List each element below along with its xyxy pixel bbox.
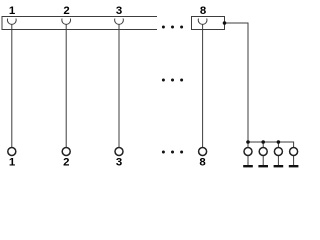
svg-text:1: 1 (9, 156, 16, 168)
svg-text:3: 3 (116, 156, 122, 168)
svg-text:3: 3 (116, 5, 122, 17)
svg-text:2: 2 (63, 156, 69, 168)
svg-text:1: 1 (9, 5, 16, 17)
svg-text:8: 8 (200, 5, 206, 17)
svg-text:2: 2 (63, 5, 69, 17)
svg-text:8: 8 (199, 156, 205, 168)
